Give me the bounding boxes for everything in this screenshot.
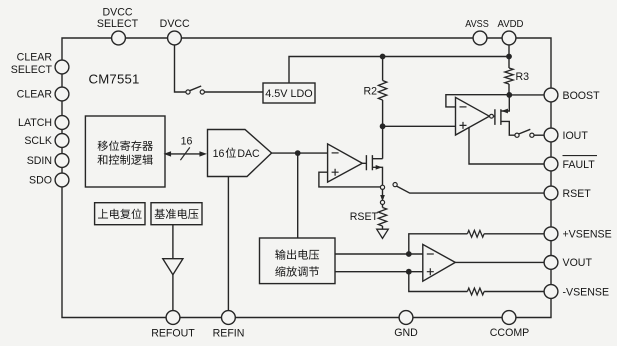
svg-text:CM7551: CM7551 — [89, 71, 140, 86]
pin BOOST — [544, 88, 558, 102]
block output voltage scaling — [260, 238, 336, 284]
op-amp U1 feedback wire — [319, 172, 381, 187]
svg-text:SCLK: SCLK — [24, 135, 52, 147]
switch S3 right contact — [530, 133, 534, 137]
pin IOUT — [544, 128, 558, 142]
transistor Q2 — [494, 109, 501, 125]
wire sense resistor to -VSENSE pin — [484, 291, 544, 293]
svg-text:CLEAR: CLEAR — [17, 89, 53, 101]
svg-text:16: 16 — [181, 136, 193, 148]
resistor +VSENSE sense — [467, 230, 484, 237]
pin +VSENSE — [544, 227, 558, 241]
pin CLEAR SELECT — [55, 60, 69, 74]
svg-text:GND: GND — [394, 327, 418, 339]
ground symbol — [377, 229, 389, 238]
pin AVSS — [473, 31, 487, 45]
resistor RSET internal — [378, 208, 386, 227]
wire AVDD down — [508, 45, 510, 68]
pin DVCC — [168, 31, 182, 45]
node DAC output junction — [295, 150, 301, 156]
svg-text:VOUT: VOUT — [563, 257, 593, 269]
wire scaling to U3 - input — [335, 253, 423, 255]
resistor R3 — [505, 68, 513, 84]
wire buffer to REFOUT — [172, 275, 174, 311]
pin AVDD — [502, 31, 516, 45]
pin DVCC SELECT — [112, 31, 126, 45]
wire RSET to ground — [382, 226, 384, 229]
svg-text:IOUT: IOUT — [563, 130, 589, 142]
pin REFOUT — [166, 311, 180, 325]
svg-text:LATCH: LATCH — [18, 117, 52, 129]
svg-text:BOOST: BOOST — [563, 90, 601, 102]
svg-text:R2: R2 — [363, 86, 377, 98]
pin -VSENSE — [544, 285, 558, 299]
svg-text:SELECT: SELECT — [97, 18, 139, 30]
svg-text:CLEAR: CLEAR — [17, 51, 53, 63]
svg-text:FAULT: FAULT — [563, 159, 596, 171]
wire BOOST node to pin — [509, 94, 544, 96]
pin CLEAR — [55, 87, 69, 101]
wire rail to R2 — [382, 57, 384, 81]
block voltage reference — [151, 203, 202, 225]
svg-text:CCOMP: CCOMP — [490, 327, 529, 339]
switch S2 common contact — [380, 185, 384, 189]
wire R3 to BOOST node — [508, 84, 510, 95]
op-amp U2 feedback wire — [446, 95, 509, 107]
transistor Q2 gate bubble — [490, 114, 494, 118]
pin CCOMP — [502, 311, 516, 325]
wire R2 bottom — [382, 100, 384, 159]
node U3 - junction — [406, 251, 412, 257]
svg-text:-VSENSE: -VSENSE — [563, 286, 610, 298]
pin SCLK — [55, 134, 69, 148]
svg-text:DVCC: DVCC — [102, 7, 132, 19]
IC package boundary — [62, 38, 551, 318]
op-amp U1 — [328, 144, 363, 182]
pin VOUT — [544, 256, 558, 270]
svg-text:SELECT: SELECT — [11, 64, 53, 76]
switch S2 throw contact — [393, 183, 397, 187]
wire LDO to AVDD rail — [289, 57, 509, 84]
switch S2 lower contact — [380, 200, 384, 204]
node AVDD-rail junction — [506, 54, 512, 60]
wire U3 output to VOUT — [455, 261, 544, 263]
op-amp U2 — [456, 97, 490, 135]
pin SDIN — [55, 154, 69, 168]
pin FAULT — [544, 157, 558, 171]
buffer amplifier A1 — [163, 259, 183, 275]
svg-text:RSET: RSET — [563, 188, 592, 200]
wire junction to U2 + input — [383, 125, 456, 127]
svg-text:DVCC: DVCC — [160, 18, 190, 30]
wire feedback to -VSENSE — [409, 272, 468, 292]
pin GND — [399, 311, 413, 325]
svg-text:REFOUT: REFOUT — [151, 327, 195, 339]
pin SDO — [55, 173, 69, 187]
wire sense resistor to +VSENSE pin — [484, 233, 544, 235]
wire S3 to IOUT pin — [534, 134, 544, 136]
svg-text:REFIN: REFIN — [213, 327, 245, 339]
resistor R2 — [378, 81, 386, 101]
DAC block 16-bit — [208, 130, 272, 177]
wire U2 to FAULT pin — [469, 127, 544, 164]
svg-text:SDIN: SDIN — [27, 155, 52, 167]
regulator 4.5V LDO box — [263, 83, 315, 103]
node U3 + junction — [406, 269, 412, 275]
wire DAC to REFIN — [227, 177, 229, 311]
block power-on reset — [95, 203, 145, 225]
pin RSET — [544, 186, 558, 200]
wire to internal RSET — [382, 205, 384, 208]
switch S3 blade — [519, 129, 531, 134]
wire feedback to +VSENSE — [409, 234, 468, 254]
wire switch to LDO — [204, 91, 263, 93]
pin REFIN — [222, 311, 236, 325]
wire junction down to scaling block — [297, 153, 299, 238]
switch S2 closed blade arrow — [382, 189, 384, 197]
bus arrow 16 — [168, 153, 203, 155]
svg-text:+VSENSE: +VSENSE — [563, 229, 612, 241]
svg-text:RSET: RSET — [350, 211, 379, 223]
op-amp U3 — [423, 244, 456, 281]
wire DVCC to power switch — [175, 45, 187, 92]
resistor -VSENSE sense — [467, 288, 484, 295]
switch S3 left contact — [515, 133, 519, 137]
svg-text:AVDD: AVDD — [498, 19, 524, 30]
node BOOST junction — [506, 92, 512, 98]
power switch S1 right contact — [200, 90, 204, 94]
node R2 bottom junction — [380, 123, 386, 129]
svg-text:DAC: DAC — [237, 148, 260, 160]
switch S2 blade to RSET pin — [397, 186, 544, 193]
svg-text:16: 16 — [213, 148, 225, 160]
transistor Q1 — [362, 155, 372, 170]
pin LATCH — [55, 116, 69, 130]
svg-text:SDO: SDO — [29, 175, 52, 187]
wire DAC output — [272, 152, 328, 154]
wire reference to buffer — [172, 225, 174, 259]
block shift register and control logic — [85, 116, 165, 187]
svg-text:4.5V LDO: 4.5V LDO — [265, 88, 312, 100]
svg-text:AVSS: AVSS — [465, 19, 489, 30]
node R2 top junction — [380, 54, 386, 60]
power switch S1 left contact — [186, 90, 190, 94]
wire scaling to U3 + input — [335, 271, 423, 273]
svg-text:R3: R3 — [516, 71, 530, 83]
power switch S1 blade — [190, 86, 202, 91]
